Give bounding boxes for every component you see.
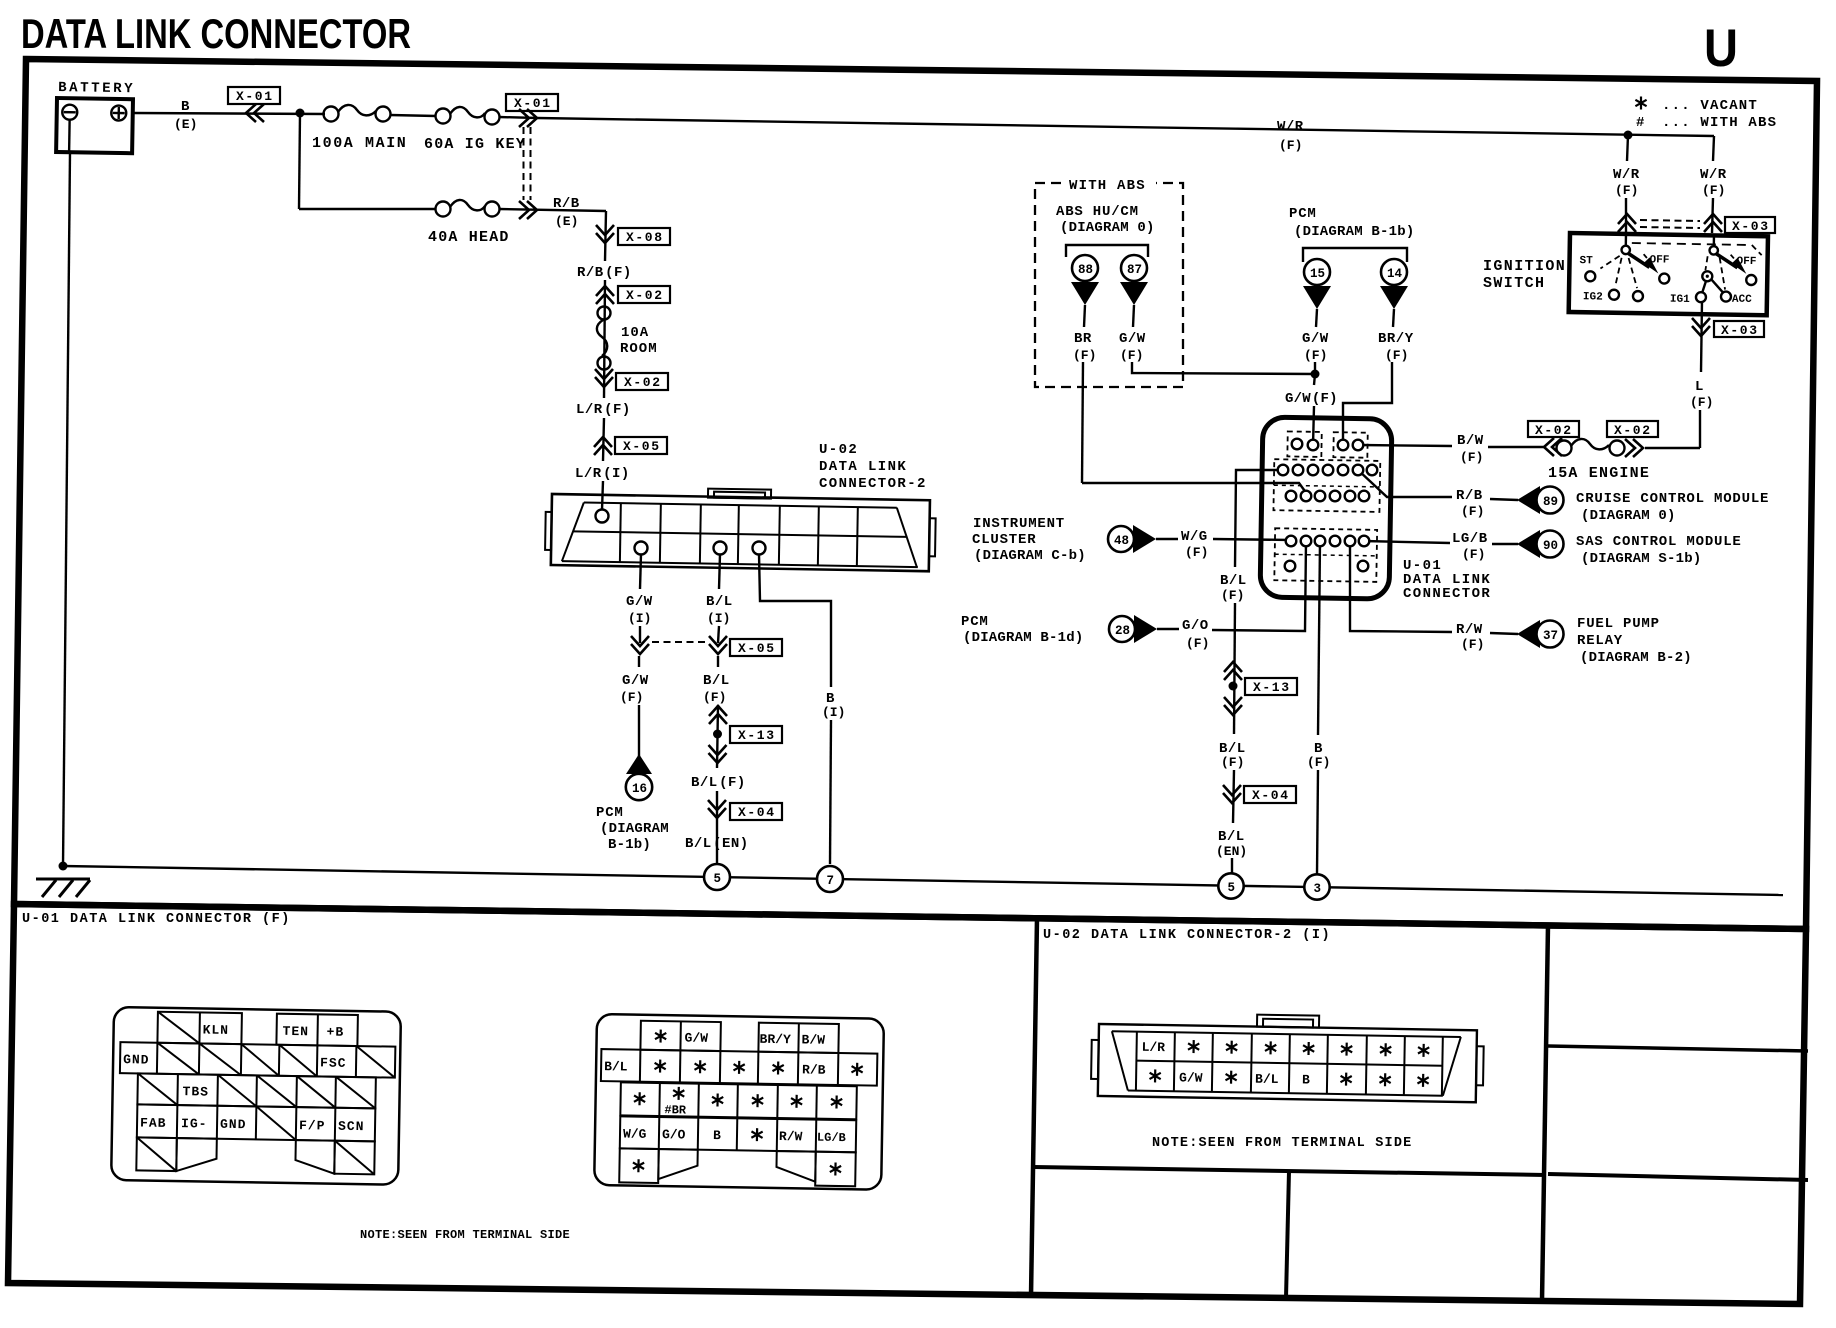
ground node 5 [704, 864, 730, 890]
terminal triangle 28 [1134, 615, 1157, 643]
ground node 3 [1304, 874, 1329, 899]
inline connector arrow on 40A wire [519, 201, 537, 219]
terminal triangle 14 [1380, 286, 1408, 309]
svg-text:B/L: B/L [1255, 1072, 1279, 1087]
pins row C [1286, 491, 1297, 502]
svg-text:(EN): (EN) [1216, 844, 1247, 859]
svg-text:WITH ABS: WITH ABS [1069, 178, 1146, 194]
connector X-08 arrow [596, 225, 614, 243]
svg-text:(DIAGRAM C-b): (DIAGRAM C-b) [974, 548, 1086, 564]
svg-text:90: 90 [1543, 539, 1558, 553]
svg-text:(F): (F) [1279, 138, 1302, 153]
svg-text:G/W: G/W [1119, 331, 1146, 347]
svg-text:89: 89 [1543, 495, 1558, 509]
wire G/W down [640, 554, 641, 589]
circle 14 [1381, 259, 1407, 285]
contact dot right [1702, 271, 1712, 281]
connector X-05 box [730, 639, 782, 656]
circle 16 [626, 774, 652, 800]
svg-text:X-02: X-02 [624, 375, 662, 390]
svg-text:15: 15 [1310, 267, 1325, 281]
wire W/R left branch down [1627, 135, 1628, 161]
connector X-02 arrow up [596, 286, 614, 304]
svg-text:(DIAGRAM 0): (DIAGRAM 0) [1060, 220, 1155, 236]
row5 shapes [136, 1137, 375, 1174]
bracket over 15 14 [1303, 248, 1407, 262]
connector X-05 box [615, 437, 667, 454]
svg-text:L/R (F): L/R (F) [576, 402, 631, 418]
fuse 60A IG KEY [424, 107, 526, 153]
svg-text:16: 16 [632, 782, 647, 796]
connector X-04 box [730, 803, 782, 820]
terminal triangle 87 [1120, 282, 1148, 305]
svg-text:U: U [1704, 19, 1738, 78]
svg-text:R/W: R/W [779, 1129, 803, 1144]
svg-text:U-01 DATA LINK CONNECTOR (F): U-01 DATA LINK CONNECTOR (F) [22, 912, 291, 927]
svg-text:(I): (I) [707, 611, 730, 626]
svg-text:G/O: G/O [662, 1127, 686, 1142]
svg-text:DATA LINK CONNECTOR: DATA LINK CONNECTOR [21, 10, 411, 57]
wire B/L down [719, 554, 720, 589]
contact IG2 [1609, 290, 1619, 300]
svg-text:X-05: X-05 [623, 439, 661, 454]
svg-text:B/L (EN): B/L (EN) [685, 836, 749, 852]
svg-text:IG1: IG1 [1670, 294, 1690, 306]
svg-text:ACC: ACC [1732, 294, 1752, 306]
connector X-13 box right [1245, 678, 1297, 695]
svg-text:88: 88 [1078, 263, 1093, 277]
svg-text:CONNECTOR-2: CONNECTOR-2 [819, 476, 927, 492]
svg-text:CRUISE CONTROL MODULE: CRUISE CONTROL MODULE [1576, 491, 1769, 507]
connector X-02 arrow down (second) [595, 369, 613, 387]
wire 28 to label [1157, 628, 1179, 630]
svg-text:X-04: X-04 [1252, 788, 1290, 803]
legend asterisk VACANT [1635, 97, 1758, 115]
svg-text:SCN: SCN [338, 1119, 365, 1134]
svg-text:FUEL PUMP: FUEL PUMP [1577, 616, 1660, 632]
svg-text:(DIAGRAM B-1b): (DIAGRAM B-1b) [1294, 224, 1414, 240]
svg-text:W/G: W/G [623, 1126, 647, 1141]
wire R/W to 37 [1490, 633, 1518, 634]
wire W/G into pin D1 [1213, 539, 1291, 540]
wire G/W from 15 down [1316, 309, 1317, 327]
dashed pair between X-03 arrows [1640, 220, 1700, 221]
connector X-03 box top [1725, 217, 1775, 234]
wire BR down [1084, 305, 1085, 327]
svg-text:G/W: G/W [1302, 331, 1329, 347]
svg-text:B/L: B/L [1218, 829, 1245, 845]
wire R/B to 89 [1490, 499, 1518, 500]
connector U-02 [545, 486, 936, 571]
svg-text:(DIAGRAM B-2): (DIAGRAM B-2) [1580, 650, 1692, 666]
circle 37 [1537, 621, 1564, 648]
svg-text:G/W: G/W [626, 594, 653, 610]
svg-text:B/L: B/L [1220, 573, 1247, 589]
row2 cells [120, 1042, 395, 1078]
svg-text:B: B [181, 99, 190, 115]
svg-text:10A: 10A [621, 325, 649, 341]
contact OFF right [1746, 275, 1756, 285]
svg-text:B/L: B/L [604, 1059, 628, 1074]
connector X-03 arrow right [1704, 214, 1722, 232]
pin B/L row2 [714, 542, 727, 555]
wire G/O into riser pin D2 [1212, 541, 1306, 631]
left fan dashes [1600, 256, 1619, 269]
svg-text:CLUSTER: CLUSTER [972, 532, 1036, 548]
wire from switch corner to 15A fuse [1645, 447, 1700, 449]
svg-text:LG/B: LG/B [817, 1131, 846, 1145]
bracket over 88 87 [1066, 245, 1148, 257]
pins row D [1286, 536, 1297, 547]
svg-text:SWITCH: SWITCH [1483, 275, 1545, 292]
svg-text:W/G: W/G [1181, 529, 1208, 545]
connector X-03 arrow bottom [1692, 318, 1710, 336]
right fan dashes [1705, 256, 1707, 270]
svg-text:B-1b): B-1b) [608, 837, 651, 853]
svg-text:G/W (F): G/W (F) [1285, 391, 1338, 407]
svg-text:+B: +B [326, 1025, 344, 1040]
fuse 15A ENGINE [1548, 439, 1650, 482]
inline connector arrow (left chevrons) [246, 104, 264, 122]
svg-text:IGNITION: IGNITION [1483, 258, 1566, 275]
right column divider h1 [1548, 1046, 1808, 1051]
pin G/W row2 [635, 542, 648, 555]
svg-text:X-01: X-01 [236, 89, 274, 104]
row2 cells [601, 1049, 877, 1086]
svg-text:NOTE:SEEN FROM TERMINAL SIDE: NOTE:SEEN FROM TERMINAL SIDE [1152, 1136, 1412, 1151]
svg-text:ST: ST [1579, 255, 1593, 267]
svg-text:14: 14 [1387, 267, 1403, 281]
wire BR horizontal into U-01 [1082, 483, 1307, 494]
connector X-13 box [730, 726, 782, 743]
contact ACC [1721, 292, 1731, 302]
svg-text:(F): (F) [1221, 588, 1244, 603]
svg-text:G/O: G/O [1182, 618, 1209, 634]
svg-text:(DIAGRAM B-1d): (DIAGRAM B-1d) [963, 630, 1083, 646]
wire LG/B to 90 [1492, 543, 1518, 545]
connector X-08 box [618, 228, 670, 245]
wire to 40A fuse [299, 208, 436, 210]
svg-text:(DIAGRAM: (DIAGRAM [600, 821, 669, 837]
main frame [14, 59, 1817, 929]
svg-text:G/W: G/W [622, 673, 649, 689]
svg-text:B: B [713, 1128, 721, 1143]
junction at battery ground [59, 862, 68, 871]
svg-text:(F): (F) [1462, 547, 1485, 562]
left arrow to OFF [1627, 253, 1649, 267]
svg-text:3: 3 [1314, 882, 1322, 896]
svg-text:15A ENGINE: 15A ENGINE [1548, 465, 1650, 482]
svg-text:INSTRUMENT: INSTRUMENT [973, 516, 1065, 532]
svg-text:(F): (F) [620, 690, 643, 705]
svg-text:IG-: IG- [181, 1116, 208, 1131]
junction W/R [1624, 131, 1633, 140]
svg-text:DATA LINK: DATA LINK [819, 459, 907, 475]
circle 89 [1537, 487, 1564, 514]
junction node [296, 109, 305, 118]
svg-text:W/R: W/R [1700, 167, 1727, 183]
svg-text:60A IG KEY: 60A IG KEY [424, 136, 526, 153]
terminal triangle 48 [1133, 525, 1156, 553]
wire junction down to 40A branch [299, 113, 300, 209]
pins row A [1292, 439, 1303, 450]
contact OFF left [1659, 273, 1669, 283]
connector X-05 arrow on B/L [709, 636, 727, 654]
svg-text:TEN: TEN [282, 1024, 309, 1039]
ground node 5 right [1218, 873, 1243, 898]
connector X-03 box bottom [1714, 321, 1764, 338]
right pivot stub [1713, 235, 1716, 246]
svg-text:B/W: B/W [1457, 433, 1484, 449]
svg-text:B/L: B/L [706, 594, 733, 610]
contacts left: ST [1585, 271, 1595, 281]
terminal triangle 16 [626, 754, 652, 774]
wire 48 to label [1156, 538, 1178, 540]
wire to X-01 arrow [499, 117, 537, 118]
svg-text:#: # [1636, 115, 1645, 131]
legend hash WITH ABS [1636, 115, 1777, 131]
ground bus [62, 866, 1783, 895]
svg-text:W/R: W/R [1613, 167, 1640, 183]
svg-text:(I): (I) [628, 611, 651, 626]
svg-text:(F): (F) [1461, 637, 1484, 652]
svg-text:(F): (F) [1120, 348, 1143, 363]
svg-text:(F): (F) [1221, 755, 1244, 770]
wire B/W from U-01 to fuse [1360, 445, 1452, 446]
svg-text:U-02 DATA LINK CONNECTOR-2 (I): U-02 DATA LINK CONNECTOR-2 (I) [1043, 928, 1331, 943]
circle 90 [1537, 531, 1564, 558]
svg-text:(F): (F) [1073, 348, 1096, 363]
fuse 40A HEAD [428, 200, 510, 246]
svg-text:R/B: R/B [1456, 488, 1483, 504]
svg-text:OFF: OFF [1649, 254, 1669, 266]
svg-text:5: 5 [714, 872, 722, 886]
svg-text:(E): (E) [555, 214, 578, 229]
dashed link between X-05 arrows [652, 641, 706, 643]
contact IG1 [1696, 292, 1706, 302]
svg-text:F/P: F/P [299, 1118, 326, 1133]
svg-text:28: 28 [1115, 624, 1130, 638]
ignition switch box SW1 [1569, 233, 1768, 315]
switch line from dot to IG1 [1702, 280, 1706, 293]
svg-text:L/R: L/R [1141, 1040, 1165, 1055]
svg-text:(F): (F) [1385, 348, 1408, 363]
terminal triangle 37 [1517, 620, 1540, 648]
battery ground wire down [63, 152, 70, 866]
svg-text:(F): (F) [1185, 545, 1208, 560]
svg-text:(F): (F) [1615, 183, 1638, 198]
junction dot X-13 right [1229, 682, 1238, 691]
svg-text:X-08: X-08 [626, 230, 664, 245]
left pivot stub [1625, 234, 1628, 246]
connector X-05 arrow up [594, 437, 612, 455]
right arrow to OFF [1715, 253, 1737, 267]
svg-text:KLN: KLN [203, 1022, 230, 1037]
svg-text:87: 87 [1127, 263, 1142, 277]
connector arrow up on B/L [1224, 662, 1242, 680]
svg-text:X-02: X-02 [1535, 423, 1573, 438]
svg-text:ROOM: ROOM [620, 341, 658, 357]
connector X-01 (box right) [506, 94, 558, 111]
connector X-02 box (second) [616, 373, 668, 390]
wire between fuses [390, 115, 436, 116]
connector U-01 body [1260, 417, 1392, 599]
ground node 7 [817, 866, 843, 892]
pins row B [1278, 465, 1289, 476]
inline arrow right of fuse [1625, 439, 1643, 457]
fuse 10A ROOM (vertical) [597, 307, 658, 370]
svg-text:7: 7 [827, 874, 835, 888]
wire junction down into U-01 [1314, 374, 1315, 385]
bottom divider vertical 2 [1542, 925, 1548, 1301]
wire B down then right then down [759, 554, 831, 687]
svg-text:L/R (I): L/R (I) [575, 466, 630, 482]
svg-text:BR/Y: BR/Y [1378, 331, 1414, 347]
svg-text:48: 48 [1114, 534, 1129, 548]
svg-text:(F): (F) [1304, 348, 1327, 363]
svg-text:G/W: G/W [1179, 1070, 1203, 1085]
contact unnamed [1633, 291, 1643, 301]
bottom section frame [8, 904, 1806, 1304]
svg-text:(DIAGRAM S-1b): (DIAGRAM S-1b) [1581, 551, 1701, 567]
battery BAT1 [56, 80, 135, 153]
svg-text:U-02: U-02 [819, 442, 858, 458]
row1 cells [157, 1012, 357, 1046]
svg-text:B/L: B/L [703, 673, 730, 689]
svg-text:X-03: X-03 [1721, 323, 1759, 338]
wire down from corner to U-02 connector [605, 211, 606, 261]
connector arrow down B/L [709, 745, 727, 763]
svg-text:X-05: X-05 [738, 641, 776, 656]
connector X-05 arrow on G/W [631, 636, 649, 654]
svg-text:100A MAIN: 100A MAIN [312, 135, 407, 152]
svg-text:... WITH ABS: ... WITH ABS [1662, 115, 1777, 131]
svg-text:NOTE:SEEN FROM TERMINAL SIDE: NOTE:SEEN FROM TERMINAL SIDE [360, 1228, 570, 1242]
svg-text:PCM: PCM [596, 805, 624, 821]
connector X-02 box [618, 286, 670, 303]
row4 cells [137, 1104, 376, 1141]
svg-text:ABS HU/CM: ABS HU/CM [1056, 204, 1139, 220]
svg-text:X-02: X-02 [1614, 423, 1652, 438]
wire BR/Y from 14 down then left into U-01 [1393, 309, 1394, 327]
circle 48 [1108, 526, 1134, 552]
svg-text:... VACANT: ... VACANT [1662, 98, 1758, 114]
svg-text:X-04: X-04 [738, 805, 776, 820]
svg-text:B/L (F): B/L (F) [691, 775, 746, 791]
bottom sub divider v [1286, 1171, 1289, 1298]
svg-text:(DIAGRAM 0): (DIAGRAM 0) [1581, 508, 1676, 524]
pin L/R row1 [596, 510, 609, 523]
wire W/R right branch down [1713, 136, 1714, 161]
svg-text:(F): (F) [1460, 450, 1483, 465]
wire LG/B from pin D6 [1364, 541, 1450, 543]
svg-text:(F): (F) [1461, 504, 1484, 519]
svg-text:#BR: #BR [664, 1103, 687, 1117]
svg-text:BR: BR [1074, 331, 1092, 347]
circle 87 [1121, 255, 1147, 281]
svg-text:(F): (F) [1702, 183, 1725, 198]
terminal triangle 89 [1517, 486, 1540, 514]
wire B/L down through X-13 [717, 656, 719, 667]
connector X-04 arrow right [1223, 785, 1241, 803]
dashed pair linking X-01 arrows [523, 127, 525, 200]
svg-text:OFF: OFF [1736, 256, 1756, 268]
terminal triangle 88 [1071, 282, 1099, 305]
bottom divider vertical 1 [1031, 918, 1037, 1296]
wire R/W from pin D5 down then right [1350, 541, 1452, 632]
svg-text:(F): (F) [1307, 755, 1330, 770]
pins row E [1285, 561, 1296, 572]
row1 cells [640, 1021, 838, 1053]
wire G/W down to PCM 16 [638, 656, 640, 667]
wire G/W down then right [1133, 305, 1134, 327]
ground symbol [36, 879, 90, 897]
wire 40A to corner [499, 209, 606, 211]
svg-text:B/W: B/W [801, 1032, 825, 1047]
svg-text:IG2: IG2 [1583, 291, 1603, 303]
fuse 100A MAIN [312, 105, 407, 152]
svg-text:RELAY: RELAY [1577, 633, 1623, 649]
svg-text:BR/Y: BR/Y [759, 1032, 791, 1048]
svg-text:B: B [1302, 1072, 1310, 1087]
inline arrow left of fuse [1544, 438, 1562, 456]
inner dashed top line [1632, 243, 1750, 245]
svg-text:(F): (F) [1690, 395, 1713, 410]
svg-text:LG/B: LG/B [1452, 531, 1488, 547]
circle 15 [1304, 259, 1330, 285]
inline connector arrow (right chevrons) [519, 109, 537, 127]
wire B/L pin B1 to left riser [1235, 470, 1283, 567]
connector X-02 box left [1528, 421, 1579, 438]
row5 shapes [619, 1148, 856, 1186]
svg-text:W/R: W/R [1277, 119, 1304, 135]
svg-text:G/W: G/W [684, 1030, 708, 1045]
terminal triangle 90 [1517, 530, 1540, 558]
row3 cells [137, 1073, 375, 1108]
svg-text:5: 5 [1228, 881, 1236, 895]
ABS dashed box [1035, 183, 1183, 387]
svg-text:(F): (F) [703, 690, 726, 705]
svg-text:GND: GND [220, 1117, 247, 1132]
wire IG1 down from switch [1701, 301, 1702, 372]
junction G/W [1311, 370, 1320, 379]
wire R/B diagonal from pin B6 [1358, 470, 1452, 497]
svg-text:R/B (F): R/B (F) [577, 265, 632, 281]
svg-text:PCM: PCM [961, 614, 989, 630]
svg-text:SAS CONTROL MODULE: SAS CONTROL MODULE [1576, 534, 1742, 550]
svg-text:R/B: R/B [802, 1062, 826, 1077]
svg-text:(F): (F) [1186, 636, 1209, 651]
svg-text:X-02: X-02 [626, 288, 664, 303]
svg-text:X-13: X-13 [738, 728, 776, 743]
svg-text:R/W: R/W [1456, 622, 1483, 638]
svg-text:40A HEAD: 40A HEAD [428, 229, 510, 246]
svg-text:X-03: X-03 [1732, 219, 1770, 234]
svg-text:PCM: PCM [1289, 206, 1317, 222]
svg-text:FAB: FAB [140, 1115, 167, 1130]
top long wire W/R to right side [537, 118, 1714, 136]
connector X-01 (box) [228, 87, 280, 104]
svg-text:GND: GND [123, 1052, 150, 1067]
svg-text:R/B: R/B [553, 196, 580, 212]
junction dot X-13 [713, 730, 722, 739]
connector arrow up B/L [709, 706, 727, 724]
connector X-03 arrow left [1618, 214, 1636, 232]
svg-text:X-13: X-13 [1253, 680, 1291, 695]
connector X-04 box right [1244, 786, 1296, 803]
terminal triangle 15 [1303, 286, 1331, 309]
row3 cells [620, 1082, 857, 1119]
